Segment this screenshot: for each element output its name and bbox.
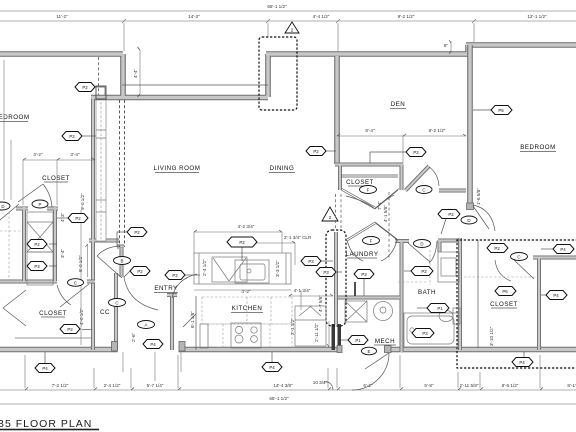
toilet	[439, 308, 460, 324]
svg-text:P4: P4	[269, 365, 275, 370]
svg-text:4'-1 3/4": 4'-1 3/4"	[294, 288, 311, 293]
oval tag E mech door	[362, 347, 377, 355]
hall dashed line	[388, 192, 390, 260]
bottom dim row 2	[0, 396, 576, 404]
tag P3 laundry east	[354, 270, 374, 297]
oval tag C entry	[109, 299, 126, 307]
svg-text:3'-2": 3'-2"	[33, 152, 43, 157]
bottom dim extension lines	[25, 355, 540, 388]
svg-text:3'-10 1/2": 3'-10 1/2"	[489, 326, 494, 346]
tag P2 hall north	[438, 210, 460, 235]
svg-text:9'-0 1/2": 9'-0 1/2"	[80, 193, 85, 210]
closet lower-left doors	[3, 290, 26, 326]
oval tag A front door	[138, 321, 155, 329]
svg-text:P2: P2	[34, 242, 40, 247]
svg-text:MECH: MECH	[375, 338, 395, 345]
wall: entry closet CC	[116, 247, 124, 351]
den angled wall	[406, 166, 440, 191]
svg-text:5'-7 1/4": 5'-7 1/4"	[147, 383, 164, 388]
extension lines from top dims	[123, 23, 125, 51]
bedroom1 entry door B	[97, 256, 122, 278]
svg-text:3'-4": 3'-4"	[70, 152, 80, 157]
svg-text:4'-2 3/4": 4'-2 3/4"	[238, 224, 255, 229]
svg-text:2'-4 1/2": 2'-4 1/2"	[202, 259, 207, 276]
tag P2 bedroom1 top	[75, 83, 105, 96]
title B5 FLOOR PLAN	[0, 418, 99, 430]
door jamb caps front door	[112, 342, 118, 352]
oval tag D left edge	[0, 202, 10, 210]
tag P2 dining wall	[306, 147, 336, 156]
furring channel living room west	[96, 100, 106, 241]
room label laundry	[346, 251, 379, 258]
svg-text:P4: P4	[42, 366, 48, 371]
pantry door	[183, 314, 196, 327]
svg-text:4'-4": 4'-4"	[133, 68, 138, 78]
tag P3 tub	[412, 329, 434, 338]
bath door arc	[408, 241, 437, 263]
svg-text:10 3/4": 10 3/4"	[313, 380, 328, 385]
tag P4 bottom right	[512, 352, 533, 367]
svg-text:P2: P2	[75, 216, 81, 221]
tag P2 entry west	[124, 267, 150, 278]
svg-text:11'-2": 11'-2"	[56, 14, 68, 19]
room label bedroom 1	[0, 114, 29, 122]
svg-text:4'-7 5/8": 4'-7 5/8"	[318, 295, 323, 312]
svg-text:P2: P2	[413, 150, 419, 155]
bifold closet under den	[341, 189, 399, 210]
svg-text:2'-4 1/2": 2'-4 1/2"	[104, 383, 121, 388]
wall end cap bedroom2 door	[467, 203, 474, 210]
svg-text:8'-5 1/2": 8'-5 1/2"	[502, 383, 519, 388]
wall: unit perimeter bottom with door openings	[0, 347, 576, 353]
bath dashes	[398, 281, 428, 283]
dashed wall projection bedroom1	[98, 57, 100, 95]
dim line bedroom1 se	[87, 244, 89, 277]
oval tag F den closet	[360, 186, 377, 194]
svg-text:C: C	[74, 281, 77, 286]
wall: west corridor wall	[89, 99, 119, 350]
tag P4 front door	[143, 340, 163, 349]
tag P2 bath	[404, 267, 433, 276]
tag P1 bath toilet	[417, 304, 449, 313]
room label entry	[154, 285, 178, 293]
room label living room	[154, 165, 201, 173]
wall: den/bedroom demising vertical	[467, 45, 473, 204]
refrigerator	[295, 306, 326, 346]
laundry appliances	[345, 301, 393, 322]
tag P2 closet1	[57, 214, 88, 223]
svg-text:9'-2 1/2": 9'-2 1/2"	[398, 14, 415, 19]
svg-text:12'-1 1/2": 12'-1 1/2"	[527, 14, 547, 19]
svg-text:4'-2": 4'-2"	[241, 289, 251, 294]
svg-text:65'-1 1/2": 65'-1 1/2"	[269, 396, 289, 401]
tag P4 closet2 east	[541, 291, 567, 300]
wall: black plumbing blocks at kitchen/mech	[332, 324, 336, 350]
svg-text:2'-1 3/4" CLR: 2'-1 3/4" CLR	[284, 235, 312, 240]
svg-text:P2: P2	[134, 230, 140, 235]
svg-text:3'-4": 3'-4"	[60, 248, 65, 258]
svg-text:P3: P3	[308, 259, 314, 264]
bedroom1 closet shelves with X	[27, 212, 53, 285]
svg-text:P2: P2	[69, 134, 75, 139]
vertical dim 4'-4" at living room jog	[133, 47, 140, 97]
beam line above wall C	[122, 84, 268, 86]
svg-text:D: D	[420, 242, 423, 247]
kitchen upper cabinets dashed	[202, 297, 292, 324]
svg-text:8'-4": 8'-4"	[365, 128, 375, 133]
wall: bedroom1 closets	[16, 207, 58, 281]
bedroom2 door arc	[473, 205, 495, 231]
tag P3 closet1 box2	[27, 262, 57, 271]
room label den	[390, 101, 406, 109]
svg-text:CLOSET: CLOSET	[39, 310, 67, 317]
oval tag B	[114, 257, 131, 265]
svg-text:P4: P4	[519, 360, 525, 365]
svg-text:P6: P6	[502, 289, 508, 294]
svg-text:P: P	[39, 202, 42, 207]
svg-text:B5 FLOOR PLAN: B5 FLOOR PLAN	[0, 418, 92, 430]
svg-text:7'-2 1/2": 7'-2 1/2"	[52, 383, 69, 388]
svg-text:4'-4 1/2": 4'-4 1/2"	[313, 14, 330, 19]
tag P2 closet1 box	[27, 240, 57, 249]
svg-text:P1: P1	[355, 338, 361, 343]
svg-text:65'-1 1/2": 65'-1 1/2"	[267, 4, 287, 9]
tag P1 mech	[341, 336, 368, 345]
tag P4 closet2 ne	[541, 245, 574, 254]
tag P2 closet lower-left	[60, 325, 92, 334]
svg-text:DINING: DINING	[270, 165, 295, 172]
svg-text:BATH: BATH	[418, 289, 436, 296]
room label mech	[374, 338, 396, 345]
svg-text:P2: P2	[172, 273, 178, 278]
svg-text:P2: P2	[239, 240, 245, 245]
bedroom1 hall door C	[60, 284, 89, 307]
wall: unit perimeter top (two-pass gray)	[0, 45, 576, 98]
svg-text:CLOSET: CLOSET	[42, 175, 70, 182]
door jamb caps mech door	[385, 346, 392, 353]
tag P5 bedroom2	[473, 106, 512, 115]
room label kitchen	[231, 305, 263, 313]
tag P2 kitchen island	[227, 237, 257, 261]
oval tag C den door	[416, 186, 432, 194]
svg-text:4'-3": 4'-3"	[60, 212, 65, 222]
room label closet (bedroom1)	[42, 175, 70, 182]
svg-text:B: B	[121, 259, 124, 264]
closet2 door arc	[495, 258, 534, 281]
svg-text:P5: P5	[498, 108, 504, 113]
wall: bedroom1 south wall	[0, 280, 95, 284]
room label dining	[269, 165, 295, 173]
svg-text:8": 8"	[444, 43, 449, 48]
svg-text:DEN: DEN	[391, 101, 406, 108]
svg-text:2'-11 5/8": 2'-11 5/8"	[459, 383, 478, 388]
svg-text:P3: P3	[34, 264, 40, 269]
small step dim top right	[444, 40, 451, 54]
svg-text:F: F	[370, 239, 373, 244]
tag P2 entry east	[165, 271, 200, 280]
oval tag D bath	[414, 240, 431, 248]
wall: mech partition	[338, 296, 400, 300]
entry closet arc	[124, 277, 158, 310]
svg-text:E: E	[368, 349, 371, 354]
revision triangle 2 top	[285, 22, 299, 33]
kitchen island counter	[194, 253, 291, 284]
svg-text:D: D	[1, 204, 4, 209]
tag P4 bottom left	[35, 352, 55, 373]
kitchen base counter bottom	[200, 323, 292, 348]
left edge dim verticals	[3, 60, 5, 200]
svg-text:2'-11 1/2": 2'-11 1/2"	[314, 323, 319, 342]
svg-text:CC: CC	[100, 309, 110, 316]
wall: hall / bath north	[395, 191, 466, 353]
dimension line top row 2	[0, 14, 576, 23]
svg-text:P4: P4	[553, 293, 559, 298]
oval tag C closet2	[511, 253, 528, 261]
svg-text:6'-2": 6'-2"	[363, 383, 373, 388]
tag P3 laundry west upper	[301, 257, 333, 266]
svg-text:P4: P4	[560, 247, 566, 252]
svg-text:P2: P2	[82, 85, 88, 90]
svg-text:LIVING ROOM: LIVING ROOM	[154, 165, 201, 172]
wall: closet under den	[335, 165, 403, 191]
svg-text:BEDROOM: BEDROOM	[520, 144, 555, 151]
svg-text:14'-2": 14'-2"	[188, 14, 200, 19]
dim 4'-2" below island	[194, 289, 291, 294]
revision cloud band laundry	[326, 230, 346, 326]
svg-text:BEDROOM: BEDROOM	[0, 114, 29, 121]
overall dimension line top row 1	[0, 4, 576, 11]
wall: entry east stub	[167, 295, 177, 350]
oval tag F laundry	[363, 237, 380, 245]
bedroom1 closet door	[18, 184, 52, 207]
junction box living room nw	[96, 86, 106, 99]
svg-text:P3: P3	[361, 272, 367, 277]
svg-text:P4: P4	[150, 342, 156, 347]
mech exterior door	[352, 353, 389, 390]
bifold laundry	[347, 222, 398, 261]
svg-text:P2: P2	[421, 269, 427, 274]
tag P6 closet2	[495, 287, 516, 296]
tag P3 laundry west lower	[316, 268, 342, 277]
svg-text:14'-4 3/8": 14'-4 3/8"	[273, 383, 293, 388]
wall: bath/closet east vertical	[458, 238, 462, 350]
soffit dashed lines living room	[120, 100, 125, 247]
oval tag C bedroom opening	[68, 279, 84, 287]
svg-text:P2: P2	[137, 269, 143, 274]
svg-text:4'-1 5/8": 4'-1 5/8"	[383, 205, 388, 222]
revision triangle 2 mid	[322, 207, 338, 221]
svg-text:P2: P2	[448, 212, 454, 217]
svg-text:CLOSET: CLOSET	[490, 301, 518, 308]
svg-text:P2: P2	[494, 246, 500, 251]
svg-text:P3: P3	[422, 331, 428, 336]
closet shelf closet under den	[341, 175, 398, 177]
svg-text:D: D	[467, 218, 470, 223]
wall: dining/den vertical	[334, 56, 340, 164]
svg-text:8'-2 1/2": 8'-2 1/2"	[429, 128, 446, 133]
svg-text:CLOSET: CLOSET	[346, 179, 374, 186]
plumbing line mech	[354, 282, 356, 296]
tag P4 kitchen bottom	[262, 352, 282, 372]
svg-text:A: A	[145, 323, 148, 328]
svg-text:F: F	[367, 188, 370, 193]
svg-text:LAUNDRY: LAUNDRY	[346, 251, 379, 258]
revision cloud closet2	[457, 240, 576, 368]
svg-text:C: C	[422, 188, 425, 193]
dim 4'-2 3/4" above island	[194, 224, 282, 253]
tag P2 den closet	[370, 148, 426, 164]
svg-text:8'-1": 8'-1"	[567, 383, 576, 388]
wall: closet2 north and west	[533, 258, 576, 351]
svg-text:1'-6 5/8": 1'-6 5/8"	[476, 188, 481, 205]
svg-text:2'-1 1/2": 2'-1 1/2"	[290, 318, 295, 335]
dims left bedroom 3'-2 / 3'-4	[23, 152, 95, 205]
room label bedroom 2	[520, 144, 556, 152]
svg-text:C: C	[115, 301, 118, 306]
wall: closet2 west face line	[477, 240, 479, 348]
bath vanity	[430, 250, 459, 285]
bathtub	[404, 313, 458, 347]
entry/living arc	[172, 274, 197, 298]
oval tag P bedroom1 closet	[32, 200, 48, 208]
kitchen west line	[195, 296, 197, 350]
wall: laundry plumbing wall vertical	[334, 232, 338, 325]
dim 8'-4" / 8'-2 1/2" in den	[337, 128, 466, 163]
tag P2 closet2 nw	[487, 244, 508, 253]
revision cloud rect top	[259, 37, 297, 110]
svg-text:P2: P2	[67, 327, 73, 332]
svg-text:P3: P3	[323, 270, 329, 275]
bedroom1 closet door leaf2 + dashed rod	[0, 204, 19, 220]
room label closet under den	[346, 179, 374, 186]
bottom dim row 1	[0, 380, 576, 390]
svg-text:C: C	[517, 255, 520, 260]
svg-text:P1: P1	[437, 306, 443, 311]
tag P2 bedroom1 mid	[62, 132, 96, 141]
closet shelf line	[15, 337, 91, 339]
tag P2 living room	[117, 228, 147, 248]
svg-text:4'-0 1/2": 4'-0 1/2"	[79, 308, 84, 325]
svg-text:P2: P2	[313, 149, 319, 154]
svg-text:2'-6": 2'-6"	[131, 332, 136, 342]
room label closet lower-left	[39, 310, 67, 317]
room label closet2	[490, 301, 518, 308]
svg-text:8'-0 1/2": 8'-0 1/2"	[78, 255, 83, 272]
svg-text:3'-3 1/2": 3'-3 1/2"	[275, 260, 280, 277]
closet2 shelf	[464, 276, 536, 278]
oval tag D bedroom2	[461, 216, 477, 224]
svg-text:5'-8": 5'-8"	[424, 383, 434, 388]
